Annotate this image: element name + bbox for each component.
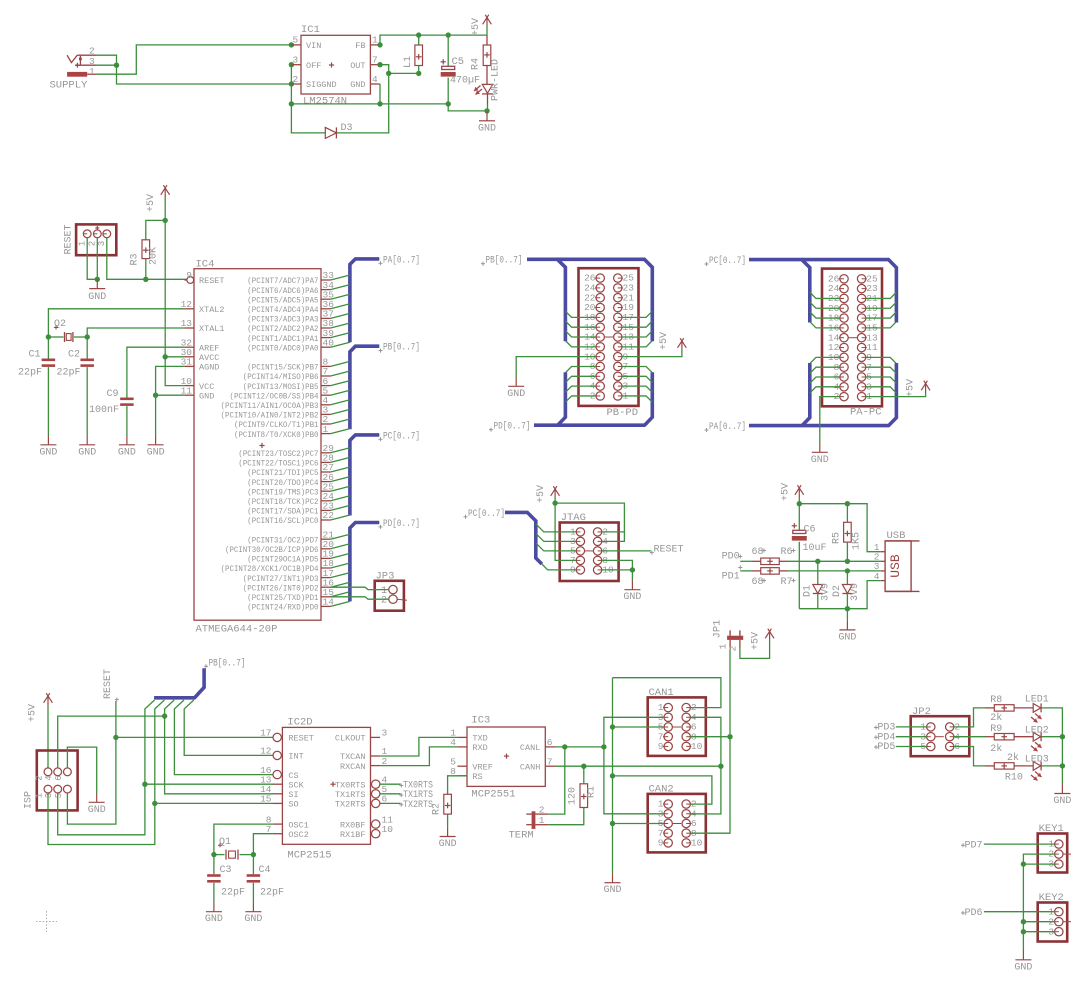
origin cross — [36, 911, 57, 932]
svg-text:GND: GND — [1014, 962, 1032, 973]
wire — [542, 564, 576, 570]
power +5V — [659, 332, 686, 350]
svg-text:C4: C4 — [259, 865, 271, 876]
svg-text:VCC: VCC — [199, 382, 214, 392]
svg-text:68: 68 — [752, 547, 764, 558]
ground — [478, 112, 496, 135]
junction — [610, 821, 615, 826]
junction — [446, 101, 451, 106]
svg-text:(PCINT3/ADC3)PA3: (PCINT3/ADC3)PA3 — [247, 315, 318, 325]
diode D3 — [291, 73, 388, 138]
wire — [866, 377, 897, 383]
svg-text:(PCINT19/TMS)PC3: (PCINT19/TMS)PC3 — [247, 487, 318, 497]
svg-text:PC[0..7]: PC[0..7] — [709, 255, 746, 267]
wire +5V rail — [164, 197, 166, 357]
svg-text:RESET: RESET — [654, 545, 684, 556]
wire — [565, 311, 596, 317]
svg-text:IC4: IC4 — [196, 258, 215, 270]
wire — [740, 560, 751, 562]
svg-text:5: 5 — [293, 35, 299, 46]
svg-text:(PCINT17/SDA)PC1: (PCINT17/SDA)PC1 — [247, 507, 318, 517]
resistor R10 2k — [985, 752, 1023, 783]
svg-text:RESET: RESET — [103, 669, 114, 699]
bus PC[0..7] — [350, 430, 420, 515]
wire — [155, 395, 157, 435]
svg-text:6: 6 — [547, 737, 553, 748]
resistor R9 2k — [985, 724, 1014, 755]
wire — [896, 746, 927, 748]
svg-text:AREF: AREF — [199, 343, 219, 353]
svg-text:22pF: 22pF — [260, 888, 284, 899]
connector USB — [874, 530, 920, 591]
svg-text:(PCINT4/ADC4)PA4: (PCINT4/ADC4)PA4 — [247, 305, 318, 315]
svg-text:(PCINT27/INT1)PD3: (PCINT27/INT1)PD3 — [243, 574, 319, 584]
svg-text:1: 1 — [78, 241, 88, 246]
junction — [114, 62, 119, 67]
wire — [555, 746, 604, 748]
svg-text:10: 10 — [691, 741, 703, 752]
svg-text:R6: R6 — [781, 547, 793, 558]
svg-text:7: 7 — [547, 756, 553, 767]
capacitor C2 22pF — [57, 337, 94, 436]
junction — [610, 773, 615, 778]
svg-text:R2: R2 — [432, 803, 443, 815]
wire — [165, 357, 184, 386]
wire — [1023, 863, 1054, 865]
svg-text:(PCINT21/TDI)PC5: (PCINT21/TDI)PC5 — [247, 468, 318, 478]
junction — [630, 567, 635, 572]
svg-text:PC[0..7]: PC[0..7] — [468, 508, 505, 520]
net label RESET — [602, 545, 684, 556]
connector JP3 — [375, 571, 407, 611]
wire — [156, 366, 185, 395]
svg-text:C3: C3 — [220, 865, 232, 876]
svg-text:3V9: 3V9 — [850, 583, 861, 601]
svg-text:20K: 20K — [149, 247, 160, 265]
wire — [555, 503, 576, 560]
wire — [565, 341, 596, 347]
ground — [811, 443, 829, 466]
svg-text:R4: R4 — [471, 58, 482, 70]
wire — [1023, 931, 1054, 933]
wire — [555, 765, 721, 767]
wire — [155, 700, 165, 803]
svg-text:RX1BF: RX1BF — [340, 830, 366, 840]
wire — [622, 376, 652, 382]
svg-text:(PCINT28/XCK1/OC1B)PD4: (PCINT28/XCK1/OC1B)PD4 — [221, 564, 319, 574]
wire — [290, 65, 292, 84]
junction — [95, 277, 100, 282]
svg-text:XTAL1: XTAL1 — [199, 324, 225, 334]
svg-text:(PCINT0/ADC0)PA0: (PCINT0/ADC0)PA0 — [247, 343, 318, 353]
svg-text:9: 9 — [186, 270, 192, 281]
svg-text:(PCINT13/MOSI)PB5: (PCINT13/MOSI)PB5 — [243, 382, 319, 392]
wire — [290, 84, 292, 104]
wire — [565, 376, 596, 382]
inductor L1 — [403, 35, 423, 73]
wire — [565, 386, 596, 392]
wire — [622, 321, 652, 327]
net label PD1 — [722, 566, 743, 583]
ground — [78, 436, 96, 459]
power +5V — [471, 15, 491, 36]
bus PC[0..7] — [705, 255, 897, 323]
svg-text:1: 1 — [539, 815, 545, 826]
svg-text:USB: USB — [887, 530, 906, 542]
svg-text:GND: GND — [507, 389, 525, 400]
bus PA[0..7] — [350, 254, 420, 342]
IC U3 MCP2551 — [450, 714, 555, 800]
junction — [251, 852, 256, 857]
power +5V — [28, 693, 53, 722]
junction — [377, 62, 382, 67]
capacitor C6 10uF — [792, 504, 827, 609]
svg-text:PB[0..7]: PB[0..7] — [383, 342, 420, 354]
svg-text:12: 12 — [260, 746, 272, 757]
svg-text:USB: USB — [888, 554, 903, 578]
wire — [604, 717, 664, 747]
connector PB-PD — [579, 268, 639, 419]
junction — [581, 764, 586, 769]
svg-text:ISP: ISP — [24, 791, 35, 809]
junction — [416, 32, 421, 37]
svg-text:R5: R5 — [832, 532, 843, 544]
wire — [565, 396, 596, 402]
svg-text:3: 3 — [382, 728, 388, 739]
connector KEY2 — [1038, 892, 1071, 941]
svg-text:31: 31 — [181, 357, 193, 368]
ground — [1053, 784, 1071, 807]
diode D1 3V9 — [803, 561, 832, 608]
svg-text:MCP2551: MCP2551 — [471, 789, 515, 801]
wire — [67, 747, 96, 793]
svg-text:+5V: +5V — [906, 379, 917, 397]
wire — [116, 736, 273, 738]
svg-text:PD0: PD0 — [722, 551, 740, 562]
resistor R7 68 — [752, 568, 796, 588]
svg-text:GND: GND — [244, 914, 262, 925]
junction — [211, 852, 216, 857]
junction — [845, 606, 850, 611]
junction — [386, 71, 391, 76]
svg-text:SO: SO — [288, 800, 298, 810]
svg-text:12: 12 — [181, 299, 193, 310]
crystal Q2 — [48, 319, 87, 342]
wire — [866, 367, 897, 373]
svg-text:IC3: IC3 — [471, 714, 490, 726]
svg-text:RESET: RESET — [199, 276, 225, 286]
ground — [88, 793, 106, 816]
wire — [690, 766, 721, 814]
net label TX2RTS — [380, 800, 433, 811]
wire — [58, 784, 145, 835]
diode D2 3V9 — [832, 571, 861, 609]
junction — [562, 744, 567, 749]
svg-text:(PCINT24/RXD)PD0: (PCINT24/RXD)PD0 — [247, 603, 318, 613]
wire — [291, 103, 448, 105]
svg-text:XTAL2: XTAL2 — [199, 305, 225, 315]
svg-text:120: 120 — [568, 787, 579, 805]
svg-text:GND: GND — [350, 80, 365, 90]
svg-text:GND: GND — [838, 632, 856, 643]
svg-text:(PCINT23/TOSC2)PC7: (PCINT23/TOSC2)PC7 — [238, 449, 318, 459]
wire — [866, 322, 897, 328]
svg-text:1K5: 1K5 — [852, 532, 863, 550]
svg-text:D2: D2 — [832, 585, 843, 597]
svg-text:2: 2 — [89, 46, 95, 57]
net label PD5 — [874, 742, 895, 753]
wire — [810, 322, 840, 328]
junction — [610, 724, 615, 729]
resistor R8 2k — [985, 695, 1014, 724]
svg-text:GND: GND — [78, 447, 96, 458]
wire — [602, 560, 633, 570]
wire — [565, 366, 596, 372]
wire — [380, 35, 487, 45]
bus PD[0..7] — [489, 372, 652, 432]
svg-text:SIGGND: SIGGND — [306, 80, 337, 90]
wire — [984, 843, 1055, 845]
svg-text:PD[0..7]: PD[0..7] — [383, 518, 420, 530]
svg-text:2: 2 — [381, 595, 387, 606]
wire — [896, 726, 927, 728]
wire — [331, 587, 389, 589]
svg-text:(PCINT20/TDO)PC4: (PCINT20/TDO)PC4 — [247, 478, 318, 488]
svg-text:PA-PC: PA-PC — [850, 406, 882, 418]
wire — [127, 347, 184, 397]
svg-text:2: 2 — [87, 241, 97, 246]
svg-text:PA[0..7]: PA[0..7] — [383, 254, 420, 266]
wire — [87, 328, 184, 337]
svg-text:SUPPLY: SUPPLY — [50, 80, 89, 92]
wire — [613, 726, 665, 728]
svg-text:+5V: +5V — [781, 483, 792, 501]
wire — [866, 292, 897, 298]
IC U4 ATMEGA644-20P — [181, 258, 335, 635]
wire — [565, 331, 596, 337]
svg-text:R9: R9 — [990, 724, 1002, 735]
svg-text:2k: 2k — [990, 712, 1002, 724]
net label RESET — [103, 669, 119, 702]
wire — [798, 497, 800, 504]
junction — [1021, 919, 1026, 924]
svg-text:CLKOUT: CLKOUT — [335, 734, 366, 744]
wire — [155, 802, 273, 804]
svg-text:KEY2: KEY2 — [1039, 892, 1064, 904]
wire — [214, 824, 273, 855]
junction — [289, 101, 294, 106]
jumper JP1 — [712, 620, 744, 652]
power +5V — [781, 483, 804, 501]
ground — [147, 436, 165, 459]
wire — [622, 366, 652, 372]
wire — [1022, 864, 1024, 950]
junction — [46, 334, 51, 339]
svg-text:CANL: CANL — [520, 743, 540, 753]
wire — [613, 823, 665, 825]
svg-text:MCP2515: MCP2515 — [287, 850, 331, 862]
power +5V — [146, 185, 170, 212]
wire — [602, 569, 633, 571]
wire — [866, 393, 926, 397]
svg-text:GND: GND — [39, 447, 57, 458]
connector JP2 — [911, 706, 970, 756]
svg-text:JP3: JP3 — [376, 571, 395, 583]
svg-text:PD6: PD6 — [965, 908, 983, 919]
svg-text:JTAG: JTAG — [561, 512, 586, 524]
wire — [866, 357, 897, 363]
connector ISP — [24, 751, 78, 811]
wire — [448, 104, 487, 111]
svg-text:2k: 2k — [990, 743, 1002, 755]
svg-text:100nF: 100nF — [89, 405, 119, 416]
wire — [799, 581, 881, 609]
wire — [96, 238, 98, 280]
svg-text:TXD: TXD — [472, 734, 487, 744]
wire — [107, 238, 146, 280]
svg-text:GND: GND — [118, 447, 136, 458]
svg-text:GND: GND — [439, 839, 457, 850]
svg-text:AGND: AGND — [199, 363, 219, 373]
junction — [727, 734, 732, 739]
ground — [439, 827, 457, 850]
connector CAN2 — [648, 783, 706, 852]
wire — [331, 597, 389, 599]
svg-text:GND: GND — [603, 885, 621, 896]
svg-text:C1: C1 — [29, 350, 41, 361]
net label PD3 — [874, 723, 895, 734]
junction — [1060, 763, 1065, 768]
wire — [548, 808, 584, 825]
wire — [565, 321, 596, 327]
svg-text:(PCINT8/T0/XCK0)PB0: (PCINT8/T0/XCK0)PB0 — [234, 430, 319, 440]
wire — [622, 341, 652, 347]
svg-text:GND: GND — [199, 391, 214, 401]
power +5V — [536, 485, 560, 503]
net label PD7 — [961, 840, 983, 851]
net label PD0 — [722, 551, 743, 562]
svg-text:+5V: +5V — [536, 485, 547, 503]
svg-text:C2: C2 — [68, 350, 80, 361]
svg-text:R1: R1 — [587, 786, 598, 798]
wire — [896, 736, 927, 738]
wire bus ripper PC — [331, 448, 350, 520]
LED PWR-LED — [474, 59, 502, 104]
junction — [1060, 734, 1065, 739]
wire — [810, 387, 840, 393]
junction — [289, 42, 294, 47]
junction — [815, 559, 820, 564]
svg-text:RESET: RESET — [63, 224, 74, 254]
connector RESET — [63, 224, 116, 255]
op-amp IC1 LM2574N — [291, 24, 380, 108]
svg-text:3: 3 — [44, 793, 54, 798]
wire — [954, 708, 985, 727]
resistor R6 68 — [752, 547, 796, 565]
junction — [289, 62, 294, 67]
junction — [113, 735, 118, 740]
svg-text:LED1: LED1 — [1025, 695, 1049, 706]
wire — [846, 609, 848, 621]
wire — [810, 357, 840, 363]
wire — [810, 302, 840, 308]
capacitor C4 22pF — [247, 855, 284, 903]
wire — [58, 716, 165, 768]
junction — [601, 744, 606, 749]
junction — [152, 801, 157, 806]
svg-text:LED3: LED3 — [1025, 755, 1049, 766]
junction — [484, 108, 489, 113]
svg-text:C9: C9 — [107, 389, 119, 400]
wire — [380, 747, 457, 766]
junction — [153, 393, 158, 398]
connector KEY1 — [1038, 823, 1071, 872]
svg-text:RS: RS — [472, 772, 482, 782]
svg-text:GND: GND — [811, 455, 829, 466]
wire — [184, 700, 273, 755]
svg-text:GND: GND — [1053, 796, 1071, 807]
svg-text:PD1: PD1 — [722, 572, 740, 583]
svg-text:(PCINT29OC1A)PD5: (PCINT29OC1A)PD5 — [247, 555, 318, 565]
svg-text:CAN2: CAN2 — [649, 783, 674, 795]
svg-text:4: 4 — [874, 571, 880, 582]
wire — [622, 386, 652, 392]
svg-text:GND: GND — [88, 805, 106, 816]
svg-text:4: 4 — [44, 775, 54, 780]
svg-text:22pF: 22pF — [18, 368, 42, 379]
wire — [954, 747, 985, 766]
wire — [740, 570, 751, 572]
svg-text:IC2D: IC2D — [287, 717, 312, 729]
svg-text:D1: D1 — [803, 585, 814, 597]
svg-text:PB-PD: PB-PD — [607, 407, 639, 419]
svg-text:11: 11 — [181, 385, 193, 396]
wire — [810, 292, 840, 298]
crystal Q1 — [214, 837, 254, 860]
svg-text:D3: D3 — [341, 123, 353, 134]
wire — [156, 394, 185, 396]
wire — [165, 356, 184, 358]
junction — [845, 559, 850, 564]
svg-text:TX2RTS: TX2RTS — [403, 800, 433, 811]
svg-text:(PCINT31/OC2)PD7: (PCINT31/OC2)PD7 — [247, 535, 318, 545]
power +5V — [751, 629, 775, 650]
svg-text:10: 10 — [382, 824, 394, 835]
junction — [162, 713, 167, 718]
wire bus ripper PD — [331, 534, 350, 606]
svg-text:OUT: OUT — [350, 61, 365, 71]
svg-text:6: 6 — [54, 775, 64, 780]
wire — [380, 737, 457, 756]
wire — [379, 84, 381, 104]
wire — [97, 64, 117, 66]
wire — [690, 650, 730, 833]
wire — [810, 367, 840, 373]
net label PD6 — [961, 908, 983, 919]
svg-text:INT: INT — [288, 752, 303, 762]
resistor R2 — [432, 776, 468, 827]
ground — [244, 902, 262, 925]
wire — [487, 104, 489, 111]
wire — [1041, 765, 1062, 767]
ground — [1014, 951, 1032, 974]
wire — [548, 747, 565, 814]
svg-text:+5V: +5V — [146, 194, 157, 212]
wire — [536, 524, 576, 532]
svg-text:RXCAN: RXCAN — [340, 762, 366, 772]
bus PB[0..7] — [154, 657, 245, 698]
ground — [623, 580, 641, 603]
